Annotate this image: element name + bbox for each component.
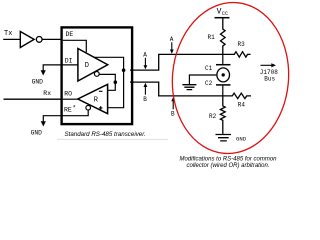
- svg-text:A: A: [170, 36, 174, 43]
- svg-text:DI: DI: [65, 58, 73, 65]
- svg-text:Modifications to RS-485 for co: Modifications to RS-485 for common: [179, 156, 277, 162]
- svg-text:A: A: [143, 52, 147, 59]
- svg-text:R4: R4: [238, 102, 246, 109]
- svg-text:Rx: Rx: [43, 90, 51, 97]
- svg-text:DE: DE: [66, 31, 74, 38]
- svg-text:C1: C1: [205, 65, 213, 72]
- svg-text:CC: CC: [222, 11, 228, 17]
- svg-text:R2: R2: [209, 113, 217, 120]
- svg-text:*: *: [72, 105, 76, 112]
- svg-text:RE: RE: [64, 107, 72, 114]
- svg-text:Tx: Tx: [4, 30, 12, 38]
- svg-text:GND: GND: [31, 130, 43, 137]
- svg-text:R1: R1: [208, 34, 216, 41]
- svg-text:V: V: [217, 8, 222, 17]
- svg-text:collector (wired OR) arbitrati: collector (wired OR) arbitration.: [186, 163, 269, 169]
- svg-text:R3: R3: [238, 41, 246, 48]
- svg-text:Standard RS-485 transceiver.: Standard RS-485 transceiver.: [65, 131, 146, 138]
- svg-text:B: B: [171, 110, 175, 117]
- svg-text:C2: C2: [205, 80, 213, 87]
- svg-text:RO: RO: [64, 91, 72, 98]
- svg-text:Bus: Bus: [264, 76, 275, 83]
- svg-text:D: D: [85, 62, 89, 70]
- svg-text:GND: GND: [236, 136, 247, 143]
- svg-text:GND: GND: [32, 78, 44, 85]
- svg-text:B: B: [143, 96, 147, 103]
